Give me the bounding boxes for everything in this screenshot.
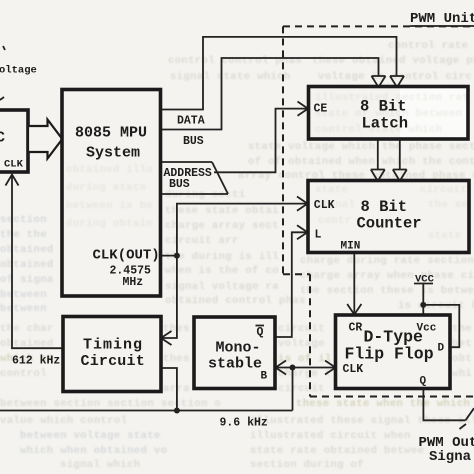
wire counter MIN down to flip-flop CR	[353, 253, 355, 315]
svg-text:between is be: between is be	[66, 200, 153, 212]
svg-text:B: B	[261, 371, 268, 383]
svg-text:between: between	[0, 289, 47, 301]
svg-text:signal which: signal which	[60, 459, 140, 471]
monostable block	[194, 317, 275, 389]
bus arrowhead into latch top (right)	[390, 76, 404, 87]
VCC rail label underline	[414, 283, 433, 285]
svg-text:Counter: Counter	[357, 215, 422, 233]
svg-text:these obtained voltage ph: these obtained voltage ph	[312, 55, 474, 67]
svg-text:CR: CR	[349, 322, 363, 335]
PWM output arrow barb	[460, 424, 467, 429]
dashed border left lower	[309, 274, 311, 396]
PWM Unit title underline	[410, 25, 474, 27]
svg-text:Q: Q	[420, 376, 427, 388]
svg-text:612 kHz: 612 kHz	[12, 355, 60, 368]
8-bit counter block	[308, 181, 469, 253]
svg-text:obtained: obtained	[0, 259, 54, 271]
svg-text:DATA: DATA	[177, 115, 205, 128]
svg-text:the section these is betwee: the section these is betwee	[300, 285, 474, 297]
node on VCC wire	[420, 302, 426, 308]
svg-text:value which control: value which control	[0, 415, 127, 427]
svg-text:oltage: oltage	[0, 65, 37, 77]
svg-text:charge array sect: charge array sect	[165, 220, 279, 232]
ADC block	[0, 110, 28, 172]
wire VCC branch around to D input	[423, 305, 459, 347]
svg-text:voltage: voltage	[278, 338, 325, 350]
dashed border left upper	[282, 26, 284, 274]
svg-text:Q: Q	[257, 326, 264, 339]
svg-text:during obtain: during obtain	[66, 218, 153, 230]
svg-text:CLK: CLK	[343, 363, 364, 376]
svg-text:L: L	[315, 229, 322, 242]
svg-text:is of il: is of il	[278, 353, 332, 365]
svg-text:signal state which: signal state which	[170, 71, 291, 83]
wire data-bus lower line (MPU data bus to latch, left arrow)	[161, 58, 379, 130]
bus arrowhead into counter top (right)	[393, 170, 407, 182]
svg-text:obtained control phas: obtained control phas	[165, 295, 306, 307]
svg-text:between voltage state: between voltage state	[20, 430, 161, 442]
svg-text:PWM Unit: PWM Unit	[410, 11, 474, 27]
svg-text:the the: the the	[0, 229, 47, 241]
dashed border top	[283, 25, 474, 27]
stray mark top-left	[3, 46, 5, 50]
svg-text:the: the	[452, 323, 472, 335]
wire latch to counter bus line (right)	[399, 139, 401, 170]
svg-text:these state when the which v: these state when the which v	[296, 398, 474, 410]
svg-text:charge during rate section: charge during rate section	[300, 255, 474, 267]
bus arrowhead into latch top (left)	[372, 76, 386, 87]
svg-text:obtained illu: obtained illu	[66, 164, 153, 176]
svg-text:control rate: control rate	[388, 40, 468, 52]
wire latch to counter bus line (left)	[377, 139, 379, 170]
arrowhead into monostable B	[276, 361, 287, 375]
wire data-bus upper line (MPU data bus to latch, right arrow)	[161, 37, 397, 110]
svg-text:of signa: of signa	[0, 274, 54, 286]
8-bit latch block	[309, 87, 469, 140]
svg-text:CLK: CLK	[4, 159, 24, 171]
svg-text:BUS: BUS	[169, 178, 190, 191]
D-type flip-flop block	[336, 315, 451, 389]
wire monostable B to flip-flop CLK	[276, 367, 336, 369]
svg-text:8 Bit: 8 Bit	[360, 98, 407, 116]
svg-text:Circuit: Circuit	[81, 353, 145, 370]
node on B/CLK line	[290, 365, 296, 371]
svg-text:BUS: BUS	[183, 135, 204, 148]
svg-text:section during of: section during of	[250, 459, 364, 471]
svg-text:CE: CE	[314, 103, 328, 116]
wire junction down to timing circuit input	[162, 256, 177, 338]
svg-text:MIN: MIN	[341, 241, 361, 253]
wire address tap to CE	[214, 109, 308, 173]
node at CLK(OUT) junction	[174, 253, 180, 259]
svg-text:D: D	[438, 343, 445, 355]
wire junction up and right to counter CLK	[177, 204, 307, 256]
arrowhead up into ADC	[6, 175, 19, 186]
wire Q output to PWM out	[423, 389, 465, 421]
svg-text:the during is ill: the during is ill	[165, 251, 279, 263]
wire timing circuit output down to bottom rail	[161, 368, 177, 411]
svg-text:thes: thes	[163, 353, 190, 365]
wire riser from rail to B/CLK line	[292, 368, 294, 411]
arrowhead into flip-flop CLK	[325, 361, 336, 375]
svg-text:control control phas: control control phas	[168, 55, 302, 67]
arrowhead into counter L	[297, 225, 308, 239]
svg-text:contr: contr	[318, 215, 352, 227]
svg-text:between: between	[0, 303, 47, 315]
svg-text:state: state	[428, 230, 462, 242]
node on bottom rail	[174, 408, 180, 414]
svg-text:section: section	[0, 214, 47, 226]
wire CLK(OUT) from MPU	[161, 255, 177, 257]
svg-text:VCC: VCC	[415, 274, 435, 286]
svg-text:C: C	[0, 130, 5, 147]
svg-text:during state: during state	[66, 182, 146, 194]
8085 MPU block	[62, 90, 161, 297]
address bus ribbon slant	[212, 162, 228, 194]
svg-text:between section section sectio: between section section section o	[0, 398, 221, 410]
arrowhead into timing circuit right side	[161, 331, 172, 345]
big hollow arrow ADC to MPU	[28, 120, 62, 159]
timing circuit block	[63, 317, 161, 392]
arrowhead into CR	[347, 304, 361, 315]
stray tick mark left edge	[0, 96, 4, 100]
wire bottom 9.6kHz rail	[0, 410, 293, 412]
svg-text:which when obtained vo: which when obtained vo	[20, 445, 167, 457]
svg-text:circuit: circuit	[278, 383, 325, 395]
svg-text:is circuit b: is circuit b	[398, 300, 474, 312]
wire VCC down to flip-flop top	[422, 284, 424, 315]
wire monostable Qbar up to counter L	[276, 232, 308, 337]
svg-text:CLK: CLK	[314, 199, 335, 212]
svg-text:obtained: obtained	[0, 244, 54, 256]
svg-text:Timing: Timing	[83, 337, 143, 354]
svg-text:control: control	[0, 368, 47, 380]
svg-text:bet: bet	[452, 338, 472, 350]
svg-text:voltage is control circ: voltage is control circ	[318, 71, 472, 83]
svg-text:Flip Flop: Flip Flop	[345, 345, 434, 364]
svg-text:CLK(OUT): CLK(OUT)	[93, 248, 160, 264]
svg-text:illustrated circuit when: illustrated circuit when	[250, 430, 411, 442]
svg-text:MHz: MHz	[123, 276, 144, 289]
svg-text:when is the of co: when is the of co	[165, 265, 279, 277]
svg-text:System: System	[86, 145, 140, 162]
svg-text:of of obtained when which the: of of obtained when which the cont	[248, 156, 474, 168]
svg-text:state rate obtained betwee: state rate obtained betwee	[250, 445, 424, 457]
svg-text:8085 MPU: 8085 MPU	[75, 125, 147, 142]
PWM output arrow diagonal	[466, 408, 474, 420]
svg-text:signal voltage ra: signal voltage ra	[165, 281, 279, 293]
overline of Qbar	[256, 325, 265, 327]
arrowhead into CE	[298, 102, 309, 116]
svg-text:circuit: circuit	[278, 323, 325, 335]
dashed border bottom	[310, 396, 474, 398]
svg-text:the char: the char	[0, 323, 54, 335]
address bus ribbon top edge	[161, 161, 213, 163]
svg-text:these state obtai: these state obtai	[165, 205, 279, 217]
svg-text:state: state	[315, 184, 349, 196]
svg-text:8 Bit: 8 Bit	[361, 198, 408, 216]
svg-text:circuit: circuit	[420, 184, 467, 196]
address bus ribbon bottom edge	[161, 193, 229, 195]
svg-text:9.6 kHz: 9.6 kHz	[220, 417, 268, 430]
svg-text:obt: obt	[452, 353, 472, 365]
wire 612kHz from timing circuit to ADC clock	[12, 175, 63, 349]
bus arrowhead into counter top (left)	[371, 170, 385, 182]
dashed border jog	[283, 273, 310, 275]
svg-text:state voltage which the phase: state voltage which the phase secti	[248, 141, 474, 153]
svg-text:charge array when phase cir: charge array when phase cir	[300, 270, 474, 282]
arrowhead into counter CLK	[297, 197, 308, 211]
svg-text:stable: stable	[208, 356, 262, 373]
svg-text:Mono-: Mono-	[216, 340, 261, 357]
svg-text:the se: the se	[428, 199, 468, 211]
svg-text:Signa: Signa	[429, 449, 472, 465]
svg-text:Latch: Latch	[362, 115, 409, 133]
svg-text:whi: whi	[452, 368, 472, 380]
